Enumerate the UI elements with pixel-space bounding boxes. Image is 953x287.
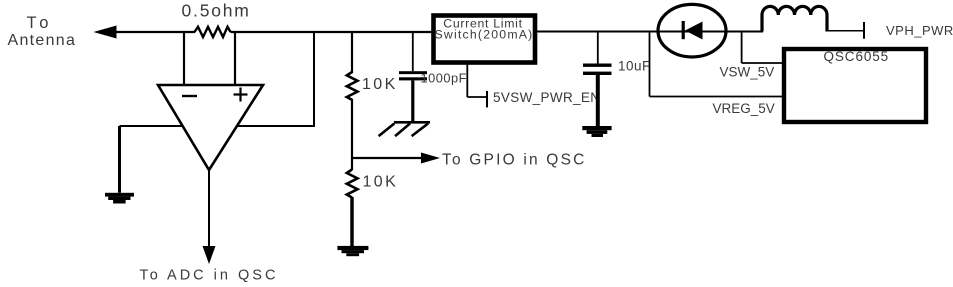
svg-text:10uF: 10uF [618, 59, 651, 74]
svg-text:To GPIO in QSC: To GPIO in QSC [442, 151, 587, 168]
svg-text:VSW_5V: VSW_5V [720, 65, 775, 80]
resistor R2 10K (upper) [347, 72, 398, 100]
wire: antenna output line [115, 31, 195, 33]
wire: VREG_5V branch [650, 32, 783, 97]
wire: divider top [351, 32, 353, 73]
svg-text:Switch(200mA): Switch(200mA) [435, 27, 534, 41]
resistor R3 10K (lower) [347, 170, 398, 198]
svg-text:QSC6055: QSC6055 [824, 49, 890, 64]
svg-text:10K: 10K [363, 173, 399, 190]
capacitor C1 1000pF [399, 32, 467, 122]
chassis ground (1000pF) [379, 122, 430, 136]
wire: shunt right to switch input [231, 31, 434, 33]
op-amp U1 [158, 85, 263, 170]
IC QSC6055 [784, 49, 926, 122]
inductor L1 [762, 6, 827, 31]
wire: divider middle [351, 99, 353, 170]
ground (10uF) [582, 126, 611, 137]
svg-text:VREG_5V: VREG_5V [713, 101, 775, 116]
svg-text:0.5ohm: 0.5ohm [182, 1, 251, 21]
svg-text:10K: 10K [362, 76, 398, 93]
svg-text:VPH_PWR: VPH_PWR [886, 23, 953, 38]
svg-text:Antenna: Antenna [8, 32, 77, 49]
current limit switch U2 [434, 16, 536, 63]
wire: op-amp output to ADC [203, 170, 216, 264]
capacitor C2 10uF [583, 32, 651, 127]
wire: GPIO tap with arrow [352, 153, 440, 164]
svg-text:5VSW_PWR_EN: 5VSW_PWR_EN [493, 90, 600, 105]
wire: switch output main line [537, 31, 763, 33]
svg-text:To ADC in QSC: To ADC in QSC [140, 268, 279, 284]
arrowhead to antenna [94, 26, 117, 39]
wire: feedback from output node [237, 32, 315, 126]
label "To Antenna" [8, 14, 77, 49]
wire: enable pin [467, 64, 487, 107]
svg-text:To: To [27, 14, 53, 32]
wire: VSW_5V branch [742, 32, 782, 64]
diode D1 (in circle) [658, 4, 726, 57]
ground (divider) [337, 246, 368, 256]
wire: sense line to non-inverting input [234, 32, 236, 85]
wire: op-amp negative supply [120, 126, 184, 193]
wire: to VPH_PWR [827, 22, 864, 39]
ground (op-amp supply) [105, 193, 134, 204]
wire: sense line to inverting input [183, 32, 185, 85]
wire: divider bottom stem [350, 197, 353, 246]
svg-text:1000pF: 1000pF [421, 71, 467, 86]
resistor R1 0.5ohm (shunt) [182, 1, 251, 37]
